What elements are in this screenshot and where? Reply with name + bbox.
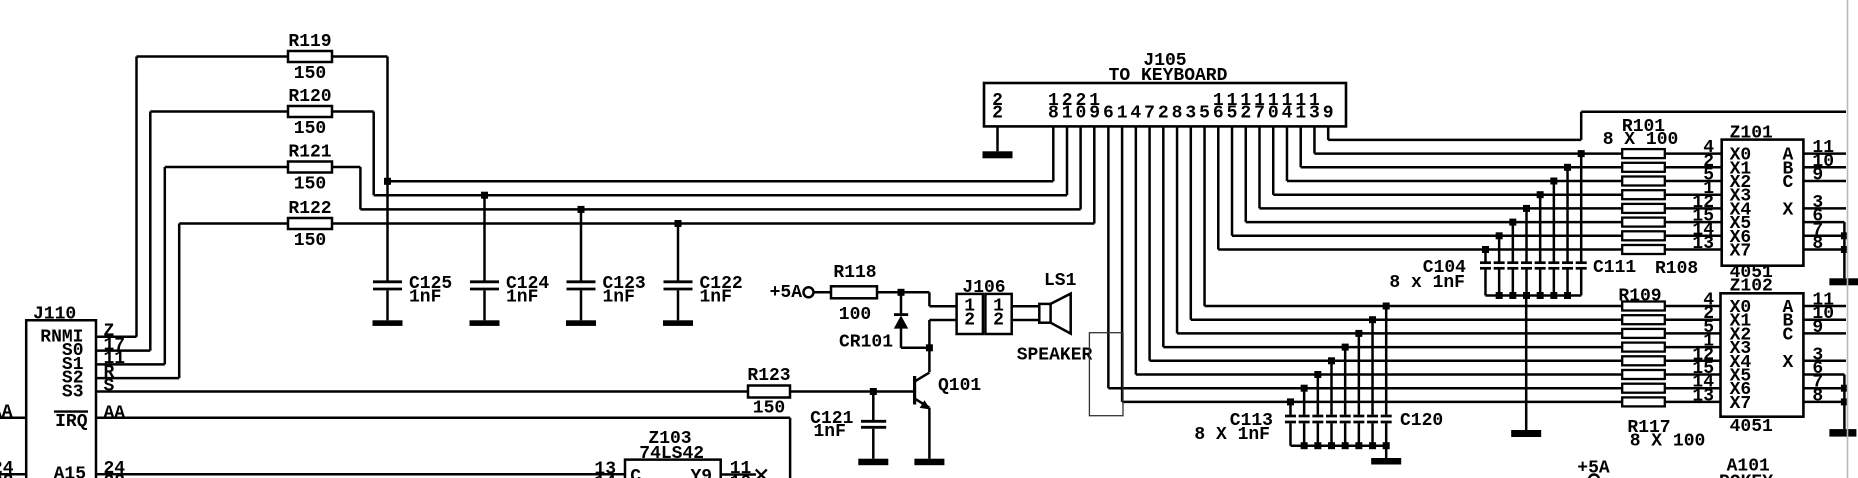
svg-text:8 X 1nF: 8 X 1nF	[1194, 425, 1270, 445]
wire R109-7 to Z102	[1665, 387, 1721, 390]
junction C113 bus	[1301, 442, 1308, 449]
wire A15 to Z103 pin 13	[96, 473, 625, 476]
svg-text:13: 13	[1692, 386, 1714, 406]
svg-text:Z101: Z101	[1730, 124, 1773, 144]
capacitor C122	[675, 220, 682, 227]
wire J105 pin 14 to Z101 row	[1286, 126, 1289, 181]
svg-text:9: 9	[1089, 104, 1100, 124]
svg-text:10: 10	[730, 473, 752, 478]
svg-text:S: S	[104, 377, 115, 397]
svg-text:A15: A15	[54, 465, 86, 478]
wire J110 S3 to R123	[96, 390, 748, 393]
wire R109-3 to Z102	[1665, 332, 1721, 335]
junction C113 bus	[1383, 442, 1390, 449]
junction C104 bus	[1550, 292, 1557, 299]
svg-text:150: 150	[753, 398, 785, 418]
wire J105 pin 9 net	[1327, 126, 1330, 139]
R109 pack resistor 2	[1622, 315, 1665, 324]
svg-text:X: X	[1782, 353, 1793, 373]
svg-text:2: 2	[1240, 104, 1251, 124]
wire J110 Z to resistor	[96, 336, 137, 339]
Z101 pin 6 wire	[1803, 221, 1844, 224]
R109 pack resistor 4	[1622, 343, 1665, 352]
Z101 right wire pin 3	[1803, 207, 1846, 210]
ground under C113 array	[1371, 458, 1401, 465]
no-connect X at Z103 output	[756, 470, 767, 478]
R109 pack resistor 6	[1622, 370, 1665, 379]
C113 bus ground stem	[1385, 446, 1388, 458]
svg-text:C: C	[1782, 325, 1793, 345]
svg-text:1: 1	[1062, 104, 1073, 124]
J105 pin 22 wire	[996, 126, 999, 151]
junction C104 bus	[1523, 292, 1530, 299]
R109 pack resistor 1	[1622, 302, 1665, 311]
junction C113 bus	[1314, 442, 1321, 449]
junction R119/C125/row1	[384, 178, 391, 185]
svg-text:4: 4	[1130, 104, 1141, 124]
resistor R121	[288, 162, 332, 173]
cap C113 array leg 7	[1301, 385, 1308, 392]
svg-text:R118: R118	[833, 263, 876, 283]
svg-text:4: 4	[1282, 104, 1293, 124]
cap C104 array leg 1	[1578, 150, 1585, 157]
C113 array bottom bus	[1290, 444, 1386, 447]
svg-text:8 X 100: 8 X 100	[1603, 130, 1679, 150]
svg-text:1nF: 1nF	[700, 288, 732, 308]
Z102 pin 6 wire	[1803, 373, 1844, 376]
diode CR101	[900, 292, 903, 313]
cap C113 array leg 1	[1383, 303, 1390, 310]
svg-text:C: C	[630, 467, 641, 478]
svg-text:150: 150	[294, 231, 326, 251]
wire R101-1 to Z101	[1665, 152, 1722, 155]
junction R118/CR101/J106	[898, 289, 905, 296]
wire J105 pin 3 to Z102 row	[1190, 126, 1193, 319]
wire J105 pin 7 to Z102 row	[1148, 126, 1151, 360]
wire R101-4 to Z101	[1665, 193, 1722, 196]
Z102 right wire pin 10	[1803, 318, 1846, 321]
R101 pack resistor 3	[1622, 177, 1665, 186]
svg-text:6: 6	[1103, 104, 1114, 124]
junction C104 bus	[1496, 292, 1503, 299]
cap C104 array leg 8	[1482, 246, 1489, 253]
R101 pack resistor 1	[1622, 149, 1665, 158]
resistor R122	[288, 218, 332, 229]
svg-text:9: 9	[1812, 166, 1823, 186]
resistor R123	[748, 386, 790, 398]
bus row4 (pin19 net)	[332, 222, 1094, 225]
wire R109-5 to Z102	[1665, 360, 1721, 363]
svg-text:1: 1	[1295, 104, 1306, 124]
svg-text:Z102: Z102	[1730, 277, 1773, 297]
Z101 right wire pin 11	[1803, 152, 1846, 155]
svg-text:J110: J110	[33, 305, 76, 325]
wire J105 pin 4 to Z102 row	[1135, 126, 1138, 374]
R101 pack resistor 7	[1622, 231, 1665, 240]
svg-text:R119: R119	[288, 32, 331, 52]
svg-text:POKEY: POKEY	[1719, 473, 1773, 478]
wire J105 pin 1 to Z102 row	[1121, 126, 1124, 402]
page right edge	[1847, 0, 1849, 478]
cap C104 array leg 4	[1537, 191, 1544, 198]
wire AA (IRQ) to lower right	[96, 417, 790, 420]
wire J105 pin 16 to Z101 row	[1217, 126, 1220, 249]
cap C104 array leg 5	[1523, 205, 1530, 212]
wire J110 R to resistor	[96, 377, 179, 380]
svg-text:S3: S3	[62, 382, 84, 402]
wire J105 pin 11 to Z101 row	[1299, 126, 1302, 167]
svg-text:150: 150	[294, 175, 326, 195]
svg-text:7: 7	[1144, 104, 1155, 124]
junction C113 bus	[1342, 442, 1349, 449]
R109 pack resistor 5	[1622, 356, 1665, 365]
svg-text:74LS42: 74LS42	[639, 444, 704, 464]
resistor R118	[831, 286, 877, 298]
svg-text:R123: R123	[747, 366, 790, 386]
svg-text:8 X 100: 8 X 100	[1630, 432, 1706, 452]
wire R109-4 to Z102	[1665, 346, 1721, 349]
svg-text:3: 3	[1185, 104, 1196, 124]
svg-text:2: 2	[993, 310, 1004, 330]
connector J110	[26, 320, 96, 478]
connector J106	[957, 294, 983, 334]
cap C104 array leg 2	[1564, 164, 1571, 171]
wire J110 17 to resistor	[96, 349, 150, 352]
junction C121 node	[870, 388, 877, 395]
svg-text:2: 2	[1158, 104, 1169, 124]
IC Z103 74LS42	[625, 460, 721, 478]
cap C113 array leg 6	[1314, 371, 1321, 378]
svg-text:R120: R120	[288, 87, 331, 107]
resistor R119	[288, 51, 332, 62]
wire R109-8 to Z102	[1665, 401, 1721, 404]
Z102 right wire pin 9	[1803, 332, 1846, 335]
svg-text:IRQ: IRQ	[55, 412, 88, 432]
svg-text:C111: C111	[1593, 258, 1636, 278]
wire R101-3 to Z101	[1665, 180, 1722, 183]
IC Z102 4051	[1721, 293, 1804, 416]
svg-text:CR101: CR101	[839, 333, 893, 353]
R101 pack resistor 8	[1622, 245, 1665, 254]
Z101 pin 7 wire	[1803, 235, 1844, 238]
C104 array bottom bus	[1485, 294, 1581, 297]
capacitor C125	[386, 181, 389, 280]
wire CR101 to Q101 collector node	[901, 347, 929, 350]
wire AA (IRQ) left stub	[0, 417, 26, 420]
ground under Z101 pins 6/7/8	[1829, 278, 1858, 285]
wire J106 to speaker (bottom)	[1012, 319, 1040, 322]
ground at J105 pin 22	[983, 151, 1013, 158]
svg-text:1nF: 1nF	[506, 288, 538, 308]
capacitor C121	[872, 392, 875, 421]
ground under Q101	[914, 459, 944, 466]
wire +5A to R118	[814, 291, 832, 294]
svg-text:8: 8	[1812, 234, 1823, 254]
bus row3 (pin20 net)	[360, 208, 1080, 211]
cap C104 array leg 7	[1496, 232, 1503, 239]
svg-text:8: 8	[1048, 104, 1059, 124]
R109 pack resistor 7	[1622, 384, 1665, 393]
Z101 right wire pin 10	[1803, 166, 1846, 169]
svg-text:X7: X7	[1730, 242, 1752, 262]
Z103 output wire pin 11	[721, 473, 756, 476]
wire node to J106 pin 1	[901, 291, 929, 294]
svg-text:1: 1	[1117, 104, 1128, 124]
svg-text:9: 9	[1323, 104, 1334, 124]
svg-text:LS1: LS1	[1044, 271, 1077, 291]
svg-text:1nF: 1nF	[409, 288, 441, 308]
svg-text:6: 6	[1213, 104, 1224, 124]
wire J105 pin 5 to Z102 row	[1203, 126, 1206, 306]
svg-text:5: 5	[1199, 104, 1210, 124]
svg-text:R122: R122	[288, 199, 331, 219]
wire A15 left stub	[0, 473, 26, 476]
R101 pack resistor 6	[1622, 218, 1665, 227]
svg-text:9: 9	[1812, 318, 1823, 338]
svg-text:R121: R121	[288, 143, 331, 163]
cap C113 array leg 4	[1342, 344, 1349, 351]
Z102 right wire pin 11	[1803, 305, 1846, 308]
svg-text:5: 5	[1227, 104, 1238, 124]
svg-text:1nF: 1nF	[603, 288, 635, 308]
svg-text:2: 2	[992, 104, 1003, 124]
cap C113 array leg 3	[1355, 330, 1362, 337]
ground under C121	[858, 459, 888, 466]
svg-text:X7: X7	[1730, 394, 1752, 414]
wire R101-8 to Z101	[1665, 248, 1722, 251]
ground under Z102 pins 6/7/8	[1829, 429, 1856, 437]
wire R101-2 to Z101	[1665, 166, 1722, 169]
wire J105 pin 10 to Z101 row	[1272, 126, 1275, 194]
wire R109-2 to Z102	[1665, 318, 1721, 321]
wire R101-6 to Z101	[1665, 221, 1722, 224]
svg-text:1nF: 1nF	[813, 422, 845, 442]
bus row1 (pin18 net)	[388, 180, 1054, 183]
svg-text:150: 150	[294, 64, 326, 84]
svg-text:TO KEYBOARD: TO KEYBOARD	[1109, 66, 1228, 86]
Z102 pin 7 wire	[1803, 387, 1844, 390]
wire J110 11 to resistor	[96, 363, 165, 366]
junction C113 bus	[1328, 442, 1335, 449]
selection box near speaker nets	[1089, 333, 1123, 416]
speaker LS1	[1039, 304, 1050, 323]
wire R109-6 to Z102	[1665, 373, 1721, 376]
R109 pack resistor 8	[1622, 397, 1665, 406]
wire J105 pin 6 to Z102 row	[1107, 126, 1110, 388]
capacitor C124	[481, 192, 488, 199]
svg-text:AA: AA	[0, 402, 13, 422]
junction C113 bus	[1355, 442, 1362, 449]
svg-text:2: 2	[964, 310, 975, 330]
wire R101-7 to Z101	[1665, 235, 1722, 238]
svg-text:Y9: Y9	[691, 467, 713, 478]
junction C104 bus	[1537, 292, 1544, 299]
connector J105 TO KEYBOARD	[984, 83, 1346, 126]
R101 pack resistor 4	[1622, 190, 1665, 199]
IC Z101 4051	[1722, 140, 1804, 266]
wire Q101 emitter to ground	[928, 408, 931, 459]
ground under C125	[373, 320, 403, 326]
bus row2 (pin21 net)	[374, 194, 1067, 197]
svg-text:13: 13	[1692, 234, 1714, 254]
wire R120 to bus row2	[332, 110, 374, 113]
svg-text:C: C	[1782, 173, 1793, 193]
resistor R120	[288, 106, 332, 117]
wire J106 to speaker (top)	[1012, 305, 1040, 308]
svg-text:4051: 4051	[1730, 417, 1773, 437]
wire R118 to node	[877, 291, 901, 294]
wire R121 to bus row3	[332, 166, 360, 169]
wire R119 to bus row1	[332, 55, 388, 58]
svg-text:7: 7	[1254, 104, 1265, 124]
ground under C124	[470, 320, 500, 326]
cap C113 array leg 2	[1369, 316, 1376, 323]
svg-text:150: 150	[294, 119, 326, 139]
Z102 pin 8 wire	[1803, 401, 1844, 404]
cap C104 array leg 3	[1550, 178, 1557, 185]
svg-text:AA: AA	[104, 403, 126, 423]
ground under C123	[566, 320, 596, 326]
svg-text:0: 0	[1268, 104, 1279, 124]
svg-text:X: X	[1782, 200, 1793, 220]
Z102 right wire pin 3	[1803, 360, 1846, 363]
C104 bus ground stem	[1525, 296, 1528, 431]
svg-text:Q101: Q101	[938, 376, 981, 396]
svg-text:8: 8	[1172, 104, 1183, 124]
svg-text:J106: J106	[962, 278, 1005, 298]
svg-text:R108: R108	[1655, 259, 1698, 279]
svg-text:14: 14	[594, 473, 616, 478]
transistor Q101	[913, 376, 916, 405]
svg-text:8: 8	[1812, 386, 1823, 406]
ground under C122	[663, 320, 693, 326]
svg-text:8 x 1nF: 8 x 1nF	[1389, 273, 1465, 293]
R109 pack resistor 3	[1622, 329, 1665, 338]
cap C104 array leg 6	[1509, 219, 1516, 226]
wire J105 pin 13 to Z101 row	[1313, 126, 1316, 153]
junction C104 bus	[1509, 292, 1516, 299]
cap C113 array leg 8	[1287, 398, 1294, 405]
cap C113 array leg 5	[1328, 357, 1335, 364]
svg-text:3: 3	[1309, 104, 1320, 124]
junction C104 bus	[1564, 292, 1571, 299]
wire J105 pin 12 to Z101 row	[1245, 126, 1248, 222]
wire R109-1 to Z102	[1665, 305, 1721, 308]
svg-text:+5A: +5A	[770, 283, 803, 303]
Z101 right wire pin 9	[1803, 180, 1846, 183]
IRQ overline	[54, 410, 88, 412]
wire R123 to Q101 base	[790, 390, 915, 393]
Z101 pin 8 wire	[1803, 248, 1844, 251]
R101 pack resistor 5	[1622, 204, 1665, 213]
junction CR101/Q101 collector	[926, 344, 933, 351]
wire J105 pin 8 to Z102 row	[1176, 126, 1179, 333]
svg-text:C120: C120	[1400, 411, 1443, 431]
wire J105 pin 17 to Z101 row	[1258, 126, 1261, 208]
R101 pack resistor 2	[1622, 163, 1665, 172]
wire R101-5 to Z101	[1665, 207, 1722, 210]
svg-text:SPEAKER: SPEAKER	[1017, 346, 1093, 366]
capacitor C123	[578, 206, 585, 213]
junction C113 bus	[1369, 442, 1376, 449]
svg-text:0: 0	[1075, 104, 1086, 124]
svg-text:100: 100	[839, 305, 871, 325]
wire J105 pin 15 to Z101 row	[1231, 126, 1234, 235]
wire J106 pin 2 to Q101 collector	[929, 319, 956, 322]
wire J105 pin 2 to Z102 row	[1162, 126, 1165, 347]
ground under C104 array	[1511, 430, 1541, 437]
